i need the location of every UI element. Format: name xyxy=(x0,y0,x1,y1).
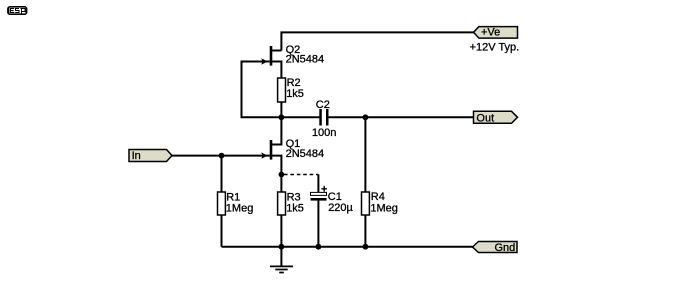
svg-text:Gnd: Gnd xyxy=(495,242,516,254)
svg-text:1k5: 1k5 xyxy=(286,88,304,100)
svg-text:220µ: 220µ xyxy=(328,202,353,214)
svg-text:2N5484: 2N5484 xyxy=(286,53,325,65)
svg-text:+12V Typ.: +12V Typ. xyxy=(470,41,520,53)
svg-text:1Meg: 1Meg xyxy=(226,202,254,214)
svg-text:In: In xyxy=(132,150,141,162)
svg-text:R4: R4 xyxy=(371,191,385,203)
svg-text:Out: Out xyxy=(476,113,494,125)
svg-text:+Ve: +Ve xyxy=(481,27,500,39)
svg-text:1Meg: 1Meg xyxy=(370,203,398,215)
svg-text:C2: C2 xyxy=(316,99,330,111)
svg-text:1k5: 1k5 xyxy=(286,202,304,214)
svg-text:2N5484: 2N5484 xyxy=(286,148,325,160)
svg-text:100n: 100n xyxy=(312,127,336,139)
